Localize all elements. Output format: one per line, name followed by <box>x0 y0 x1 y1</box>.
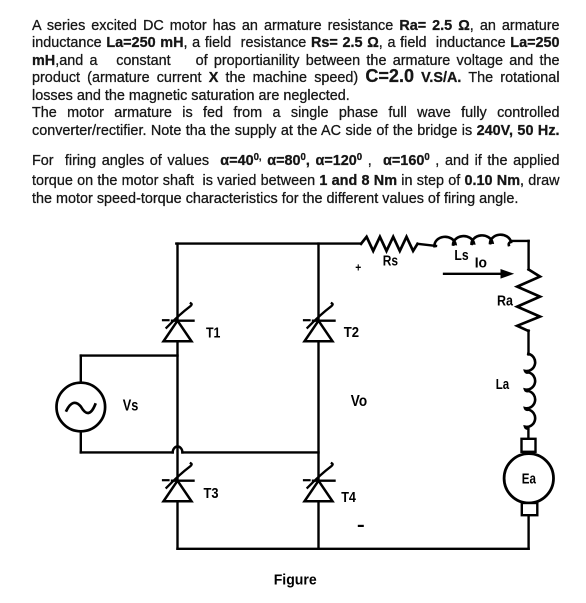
AC source Vs <box>57 383 106 432</box>
inductor La <box>525 354 535 429</box>
label Ea <box>522 470 537 487</box>
wire T2 cathode down to T4 <box>317 341 319 480</box>
label T4 <box>341 489 356 506</box>
wire Vs bottom to hop <box>81 451 173 453</box>
wire right branch down to Ra <box>527 241 529 270</box>
svg-text:Ra: Ra <box>497 293 514 310</box>
label La <box>496 376 510 393</box>
wire Ra to La <box>527 331 529 355</box>
svg-text:La: La <box>496 376 510 393</box>
svg-text:T3: T3 <box>204 486 219 502</box>
svg-text:T1: T1 <box>206 324 220 341</box>
thyristor T1 <box>163 303 194 341</box>
wire Vs top stub <box>80 356 82 383</box>
label Figure <box>274 572 317 588</box>
wire T4 cathode to bottom rail <box>317 501 319 549</box>
label Vs <box>123 398 139 415</box>
label T3 <box>204 486 219 502</box>
wire Ls to top-right corner <box>511 240 529 242</box>
label - (negative terminal) <box>358 525 364 527</box>
svg-text:Vs: Vs <box>123 398 139 415</box>
svg-text:Ls: Ls <box>454 248 468 264</box>
svg-text:T4: T4 <box>341 489 356 506</box>
wire bottom rail <box>178 548 529 550</box>
wire La to motor brush <box>527 429 529 439</box>
label Io <box>475 256 487 272</box>
wire Vs bottom stub <box>80 431 82 452</box>
label Rs <box>383 254 398 270</box>
label Vo <box>351 393 367 410</box>
label Ls <box>454 248 468 264</box>
wire hop to middle branch node <box>182 451 318 453</box>
thyristor T3 <box>163 463 194 501</box>
motor armature Ea <box>504 439 553 515</box>
label T2 <box>344 324 359 341</box>
wire crossover hop over left branch <box>173 447 183 453</box>
wire T2 anode to top rail <box>317 244 319 320</box>
svg-text:T2: T2 <box>344 324 359 341</box>
svg-text:Vo: Vo <box>351 393 367 410</box>
current arrow Io <box>444 269 514 279</box>
svg-text:+: + <box>355 261 361 275</box>
wire T1 anode to top rail <box>176 244 178 320</box>
wire Vs top to left branch <box>81 354 178 356</box>
resistor Ra <box>517 270 540 332</box>
label Ra <box>497 293 514 310</box>
inductor Ls <box>434 235 511 247</box>
label T1 <box>206 324 220 341</box>
thyristor T4 <box>304 463 335 501</box>
svg-text:Figure: Figure <box>274 572 317 588</box>
wire top rail <box>176 242 361 244</box>
label + (positive terminal) <box>355 261 361 275</box>
svg-text:Rs: Rs <box>383 254 398 270</box>
svg-text:Io: Io <box>475 256 487 272</box>
wire motor to bottom rail <box>527 515 529 549</box>
svg-text:Ea: Ea <box>522 470 537 487</box>
wire Rs to Ls <box>418 244 437 246</box>
wire T3 cathode to bottom rail <box>176 501 178 549</box>
thyristor T2 <box>304 303 335 341</box>
resistor Rs <box>361 237 418 251</box>
wire T1 cathode down to T3 <box>176 341 178 480</box>
